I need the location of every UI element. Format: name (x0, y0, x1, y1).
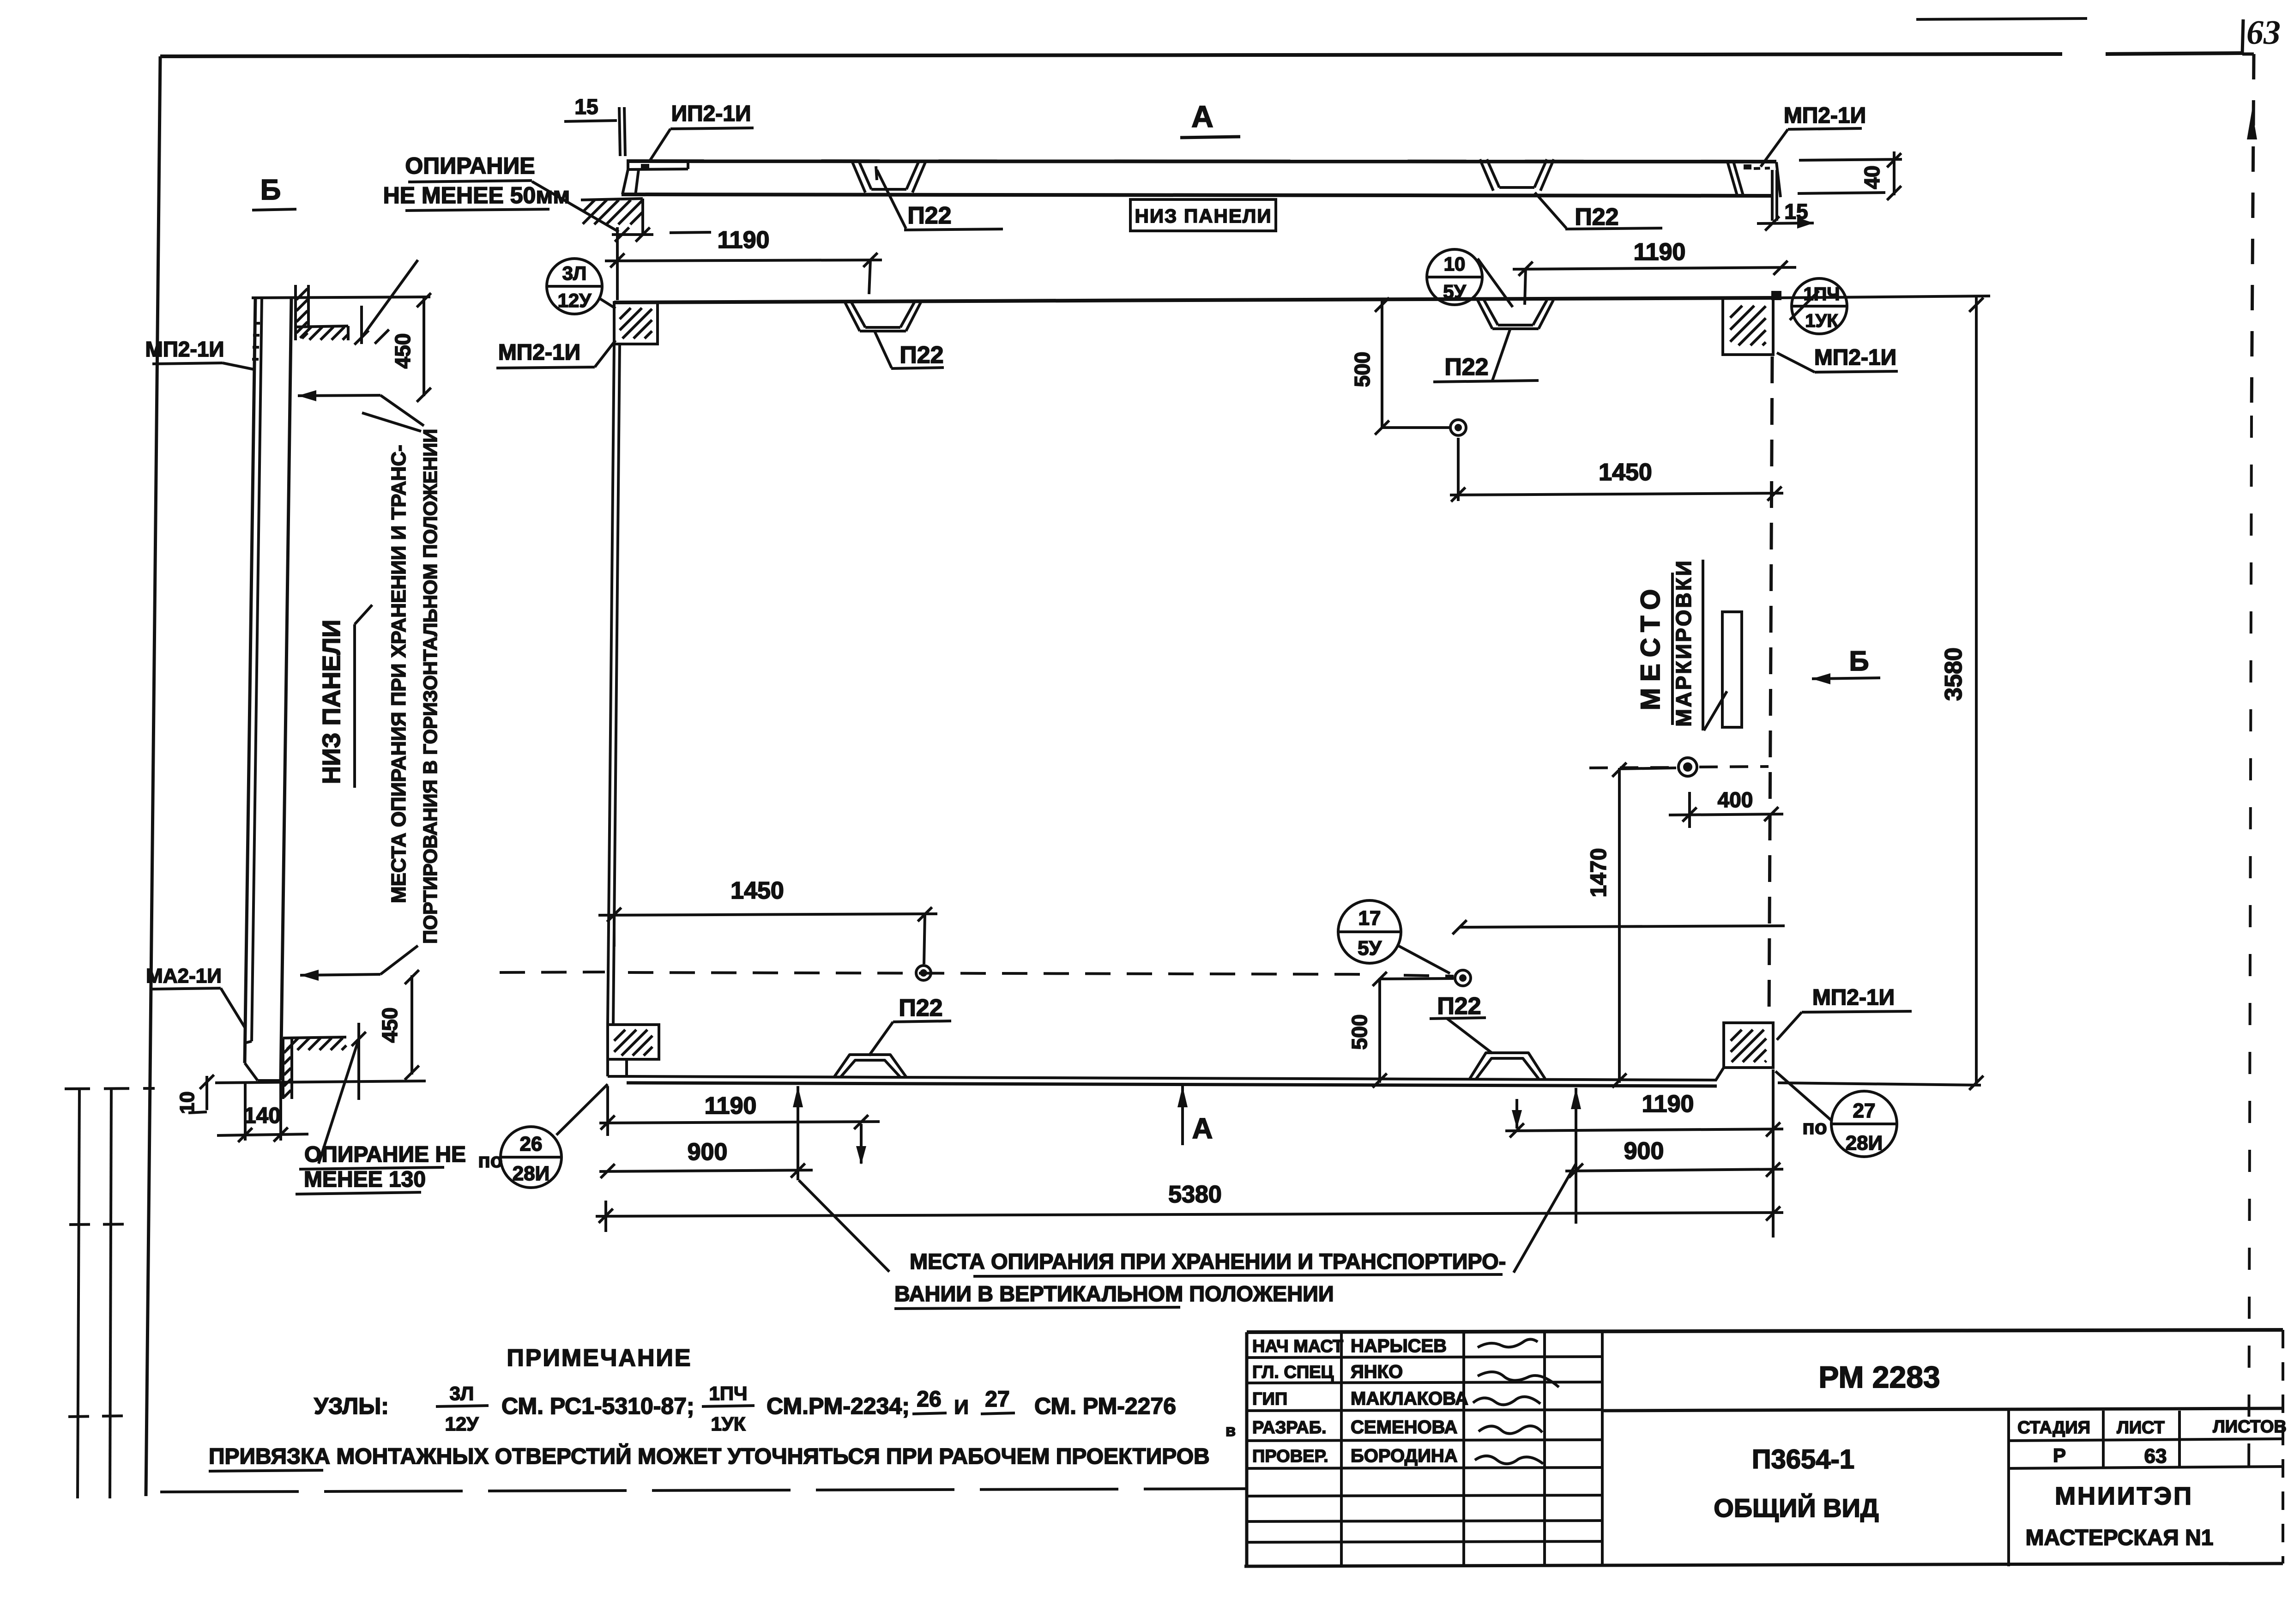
svg-text:П22: П22 (899, 995, 942, 1021)
svg-text:63: 63 (2246, 14, 2281, 52)
plan corner box bottom-left (608, 1025, 659, 1059)
plan keyway notch A (top edge) (845, 302, 860, 331)
leader right to text (1514, 1164, 1576, 1273)
svg-text:НИЗ ПАНЕЛИ: НИЗ ПАНЕЛИ (1135, 205, 1272, 227)
section B panel top edge (252, 297, 430, 298)
svg-text:СЕМЕНОВА: СЕМЕНОВА (1351, 1417, 1457, 1437)
title block divider stadiya col (2007, 1411, 2010, 1566)
dim 1190 top-left (605, 260, 882, 261)
section A left end bevel (627, 161, 629, 169)
mounting hole 1 (1450, 420, 1466, 435)
svg-text:БОРОДИНА: БОРОДИНА (1351, 1446, 1458, 1466)
svg-text:1ПЧ: 1ПЧ (709, 1383, 747, 1404)
plan bottom edge (double) (627, 1076, 1717, 1080)
svg-text:1УК: 1УК (1805, 311, 1838, 331)
plan corner box bottom-right (1724, 1023, 1773, 1068)
svg-text:МАРКИРОВКИ: МАРКИРОВКИ (1672, 559, 1696, 727)
plan keyway notch B (top edge) (1478, 300, 1492, 329)
svg-text:СТАДИЯ: СТАДИЯ (2017, 1418, 2090, 1437)
svg-text:1470: 1470 (1587, 848, 1611, 898)
svg-text:НАРЫСЕВ: НАРЫСЕВ (1351, 1336, 1447, 1356)
svg-text:П3654-1: П3654-1 (1752, 1444, 1854, 1474)
svg-text:15: 15 (1784, 199, 1808, 223)
svg-text:ОПИРАНИЕ НЕ: ОПИРАНИЕ НЕ (304, 1142, 466, 1167)
keyway P22 in section A (left) (852, 161, 865, 193)
dim 900 bottom-left (599, 1170, 813, 1171)
svg-text:МЕСТА ОПИРАНИЯ ПРИ ХРАНЕНИИ И: МЕСТА ОПИРАНИЯ ПРИ ХРАНЕНИИ И ТРАНСПОРТИ… (910, 1249, 1506, 1274)
svg-text:МП2-1И: МП2-1И (1784, 103, 1866, 128)
boxed label NIZ PANELI (1130, 199, 1276, 231)
svg-text:900: 900 (1624, 1138, 1664, 1165)
svg-text:МА2-1И: МА2-1И (146, 965, 222, 987)
plan corner box top-left (614, 302, 658, 344)
section B panel outline (245, 298, 255, 1063)
node 1PCh/1UK (1792, 278, 1847, 334)
svg-text:П22: П22 (1437, 993, 1481, 1020)
svg-text:ЯНКО: ЯНКО (1351, 1362, 1403, 1382)
sheet border bottom (broken) (160, 1489, 1247, 1492)
horizontal reference line (1460, 926, 1785, 927)
svg-text:63: 63 (2144, 1445, 2167, 1467)
dim 40 (section A thickness) (1799, 159, 1902, 160)
dim 900 bottom-right (1565, 1169, 1783, 1171)
svg-text:500: 500 (1350, 352, 1374, 387)
svg-text:15: 15 (574, 95, 598, 119)
leader top text (362, 413, 421, 431)
dim 5380 overall (596, 1213, 1783, 1216)
svg-text:27: 27 (985, 1387, 1009, 1412)
node 10/5U (1427, 249, 1482, 305)
svg-text:МП2-1И: МП2-1И (1812, 985, 1895, 1010)
section B anchor marks (MP2-1I) (254, 322, 260, 325)
svg-text:СМ. РМ-2276: СМ. РМ-2276 (1034, 1393, 1176, 1419)
svg-text:1190: 1190 (705, 1093, 757, 1119)
svg-text:ПОРТИРОВАНИЯ В ГОРИЗОНТАЛЬНОМ: ПОРТИРОВАНИЯ В ГОРИЗОНТАЛЬНОМ ПОЛОЖЕНИИ (419, 429, 441, 944)
support arrow right (vertical storage) (1575, 1088, 1577, 1224)
plan left edge (double) (608, 344, 614, 1025)
panel section A top edge (627, 161, 1776, 162)
svg-text:ИП2-1И: ИП2-1И (671, 102, 751, 126)
plan support pad C (bottom edge) (834, 1055, 906, 1077)
svg-text:МЕСТО: МЕСТО (1636, 583, 1666, 711)
svg-text:Р: Р (2053, 1444, 2066, 1466)
svg-text:450: 450 (378, 1008, 402, 1043)
svg-text:10: 10 (1444, 253, 1466, 275)
svg-text:1190: 1190 (1634, 239, 1686, 266)
support mark ticks (top) (360, 306, 363, 344)
svg-text:28И: 28И (1846, 1132, 1883, 1154)
svg-text:1450: 1450 (1599, 459, 1652, 486)
svg-text:500: 500 (1347, 1014, 1371, 1050)
dim 3580 right (1778, 296, 1990, 298)
svg-text:28И: 28И (513, 1162, 550, 1185)
dim 500 bottom (hole3 to edge) (1378, 978, 1381, 1083)
leader bottom text (300, 974, 380, 975)
svg-text:140: 140 (244, 1104, 281, 1128)
svg-text:А: А (1192, 1113, 1213, 1145)
section mark A bottom (1181, 1086, 1184, 1145)
svg-text:МП2-1И: МП2-1И (145, 337, 224, 361)
title block divider big (1602, 1408, 2283, 1411)
svg-text:5У: 5У (1358, 937, 1382, 960)
svg-text:26: 26 (917, 1387, 941, 1412)
svg-text:ЛИСТ: ЛИСТ (2117, 1418, 2165, 1437)
svg-text:МАСТЕРСКАЯ N1: МАСТЕРСКАЯ N1 (2026, 1526, 2214, 1550)
svg-text:17: 17 (1358, 907, 1381, 930)
title block stadiya cells (2009, 1439, 2283, 1441)
plan support pad D (bottom edge) (1470, 1053, 1545, 1079)
svg-text:3Л: 3Л (450, 1383, 474, 1404)
svg-text:12У: 12У (558, 290, 592, 311)
svg-text:НАЧ МАСТ: НАЧ МАСТ (1252, 1337, 1343, 1356)
svg-text:СМ.РМ-2234;: СМ.РМ-2234; (767, 1393, 910, 1419)
dim 1190 top-right (1513, 267, 1796, 269)
svg-text:1190: 1190 (1642, 1091, 1694, 1117)
top-right inner line (1916, 18, 2087, 19)
svg-text:ПРИМЕЧАНИЕ: ПРИМЕЧАНИЕ (507, 1345, 692, 1371)
svg-text:ГЛ. СПЕЦ: ГЛ. СПЕЦ (1252, 1363, 1334, 1382)
section A right end (1727, 162, 1737, 195)
support hatch block (under section A left end) (581, 199, 643, 200)
title block signatures (squiggles) (1478, 1339, 1538, 1347)
svg-text:по: по (1802, 1116, 1827, 1139)
svg-text:А: А (1191, 99, 1213, 133)
svg-text:МНИИТЭП: МНИИТЭП (2055, 1482, 2193, 1510)
plan top edge (614, 298, 1773, 302)
svg-text:ГИП: ГИП (1252, 1389, 1287, 1409)
svg-text:по: по (478, 1149, 502, 1172)
sheet border left (146, 56, 160, 1496)
svg-text:ПРИВЯЗКА МОНТАЖНЫХ ОТВЕРСТИ: ПРИВЯЗКА МОНТАЖНЫХ ОТВЕРСТИЙ МОЖЕТ УТОЧН… (209, 1443, 1210, 1469)
svg-text:27: 27 (1853, 1099, 1876, 1122)
dim 1190 bottom-right (1505, 1129, 1783, 1131)
dim 400 (hole2 to edge) (1688, 792, 1691, 828)
svg-text:СМ. РС1-5310-87;: СМ. РС1-5310-87; (501, 1393, 694, 1419)
support mark ticks (bottom) (357, 1023, 360, 1100)
svg-text:УЗЛЫ:: УЗЛЫ: (314, 1393, 389, 1419)
keyway P22 in section A (right) (1480, 159, 1493, 191)
svg-text:П22: П22 (1444, 354, 1488, 380)
dim 1450 top (hole to edge) (1457, 438, 1460, 501)
svg-text:900: 900 (688, 1139, 728, 1165)
svg-text:ОПИРАНИЕ: ОПИРАНИЕ (405, 153, 535, 179)
leader left to text (799, 1180, 889, 1272)
dim 1470 (hole2 to bottom) (1618, 768, 1621, 1083)
svg-text:ОБЩИЙ ВИД: ОБЩИЙ ВИД (1714, 1493, 1879, 1522)
svg-text:Б: Б (1849, 646, 1869, 676)
svg-text:ЛИСТОВ: ЛИСТОВ (2213, 1417, 2287, 1437)
node 3L/12U (547, 259, 602, 314)
svg-text:РМ 2283: РМ 2283 (1818, 1360, 1940, 1394)
dim 1190 bottom-left (599, 1122, 880, 1123)
dim 140 (panel thickness) (244, 1083, 247, 1141)
svg-text:МЕНЕЕ 130: МЕНЕЕ 130 (304, 1167, 426, 1192)
node 17/5U (1338, 900, 1401, 963)
svg-text:П22: П22 (899, 342, 943, 368)
filing margin lines bottom-left (78, 1089, 79, 1498)
support arrow top (section B) (298, 395, 380, 396)
svg-text:1450: 1450 (730, 877, 784, 904)
dim 450 top (section B) (423, 298, 425, 396)
sheet border top (160, 54, 2062, 56)
svg-text:26: 26 (520, 1133, 543, 1155)
dim 1450 bottom-left (edge to hole4) (598, 914, 937, 915)
svg-text:НИЗ ПАНЕЛИ: НИЗ ПАНЕЛИ (318, 620, 345, 784)
dim 500 top (edge to hole) (1381, 301, 1383, 428)
svg-text:Б: Б (260, 174, 281, 206)
dashed axis through holes 3-4 (500, 972, 605, 972)
svg-text:ВАНИИ В ВЕРТИКАЛЬНОМ ПОЛОЖЕНИИ: ВАНИИ В ВЕРТИКАЛЬНОМ ПОЛОЖЕНИИ (894, 1281, 1334, 1306)
svg-text:3Л: 3Л (562, 262, 587, 284)
dim 450 bottom (section B) (411, 975, 413, 1075)
svg-text:П22: П22 (1575, 204, 1618, 230)
svg-text:40: 40 (1860, 165, 1884, 189)
svg-text:МП2-1И: МП2-1И (498, 340, 580, 365)
svg-text:И: И (954, 1396, 969, 1419)
section B ground line (215, 1081, 426, 1083)
plan right edge (dashed) (1769, 356, 1772, 1021)
svg-text:РАЗРАБ.: РАЗРАБ. (1252, 1418, 1327, 1437)
section B top support (hatched) (294, 285, 297, 340)
svg-text:450: 450 (391, 333, 415, 369)
title block grid (1247, 1330, 2283, 1332)
sheet border right (dashed) (2242, 19, 2243, 54)
svg-text:1УК: 1УК (711, 1413, 745, 1435)
marking place rectangle (1722, 612, 1742, 727)
mounting hole 4 (916, 966, 931, 980)
svg-text:ПРОВЕР.: ПРОВЕР. (1252, 1447, 1328, 1466)
svg-text:3580: 3580 (1940, 647, 1967, 701)
svg-text:МАКЛАКОВА: МАКЛАКОВА (1351, 1389, 1468, 1409)
svg-text:12У: 12У (445, 1413, 479, 1435)
panel section A bottom edge (622, 194, 1773, 196)
svg-text:в: в (1225, 1421, 1236, 1440)
svg-text:П22: П22 (907, 202, 951, 229)
svg-text:МП2-1И: МП2-1И (1814, 345, 1896, 370)
svg-text:5380: 5380 (1168, 1181, 1222, 1208)
mounting hole 3 (1455, 970, 1471, 986)
svg-text:10: 10 (176, 1092, 199, 1114)
svg-text:1190: 1190 (718, 227, 770, 254)
mounting hole 2 (1678, 758, 1697, 776)
svg-text:400: 400 (1718, 788, 1753, 812)
support arrow left (vertical storage) (797, 1086, 799, 1180)
section B bottom support (hatched) (282, 1038, 284, 1099)
svg-text:МЕСТА ОПИРАНИЯ ПРИ ХРАНЕНИИ: МЕСТА ОПИРАНИЯ ПРИ ХРАНЕНИИ И ТРАНС- (387, 445, 410, 903)
plan corner box top-right (1723, 298, 1773, 355)
